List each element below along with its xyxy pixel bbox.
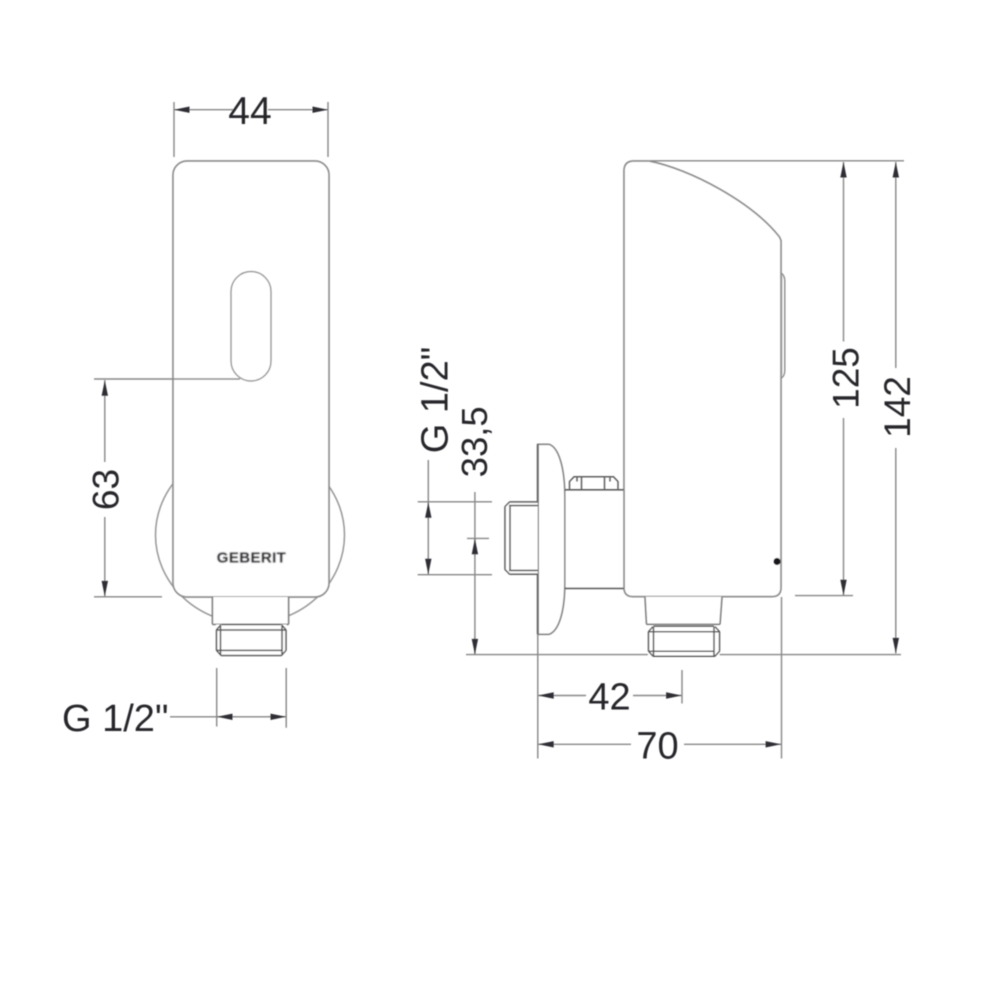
svg-text:44: 44 [228,90,271,133]
svg-text:G 1/2": G 1/2" [415,347,457,453]
svg-text:142: 142 [877,376,918,438]
svg-text:42: 42 [588,677,630,719]
svg-text:G 1/2": G 1/2" [62,698,168,740]
svg-text:63: 63 [86,469,127,510]
svg-text:GEBERIT: GEBERIT [217,550,286,567]
svg-text:125: 125 [826,347,867,409]
svg-text:33,5: 33,5 [454,406,495,477]
svg-text:70: 70 [636,725,678,767]
